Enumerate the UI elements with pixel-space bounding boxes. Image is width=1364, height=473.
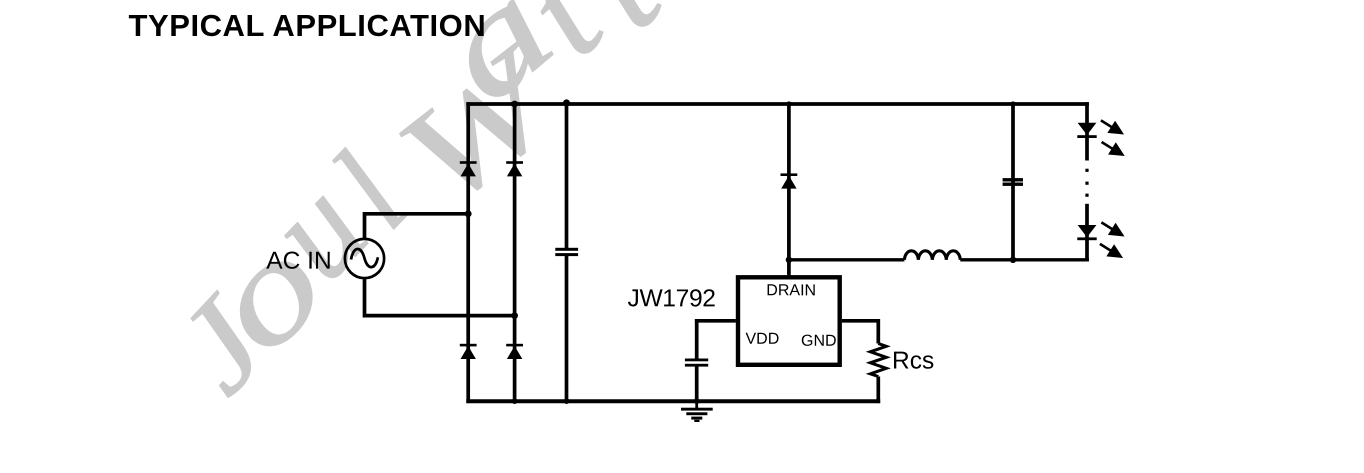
node bottom rail / bridge right: [512, 398, 518, 404]
pin label VDD: [745, 331, 779, 348]
LED1 emission arrow lower: [1102, 142, 1123, 155]
node bottom rail / ground: [694, 398, 700, 404]
wire AC top: [365, 214, 471, 239]
node top rail / input cap: [563, 99, 570, 106]
capacitor C1 input plates: [555, 248, 578, 256]
node bottom rail / input cap: [564, 398, 570, 404]
diode D2 top-right: [506, 161, 523, 176]
wire inductor to LED branch: [960, 258, 1089, 261]
wire LED branch upper: [1085, 102, 1089, 160]
AC source V1: [345, 239, 384, 278]
wire freewheel diode branch: [787, 102, 791, 260]
ground symbol: [681, 401, 713, 422]
node top rail / freewheel diode: [786, 101, 791, 106]
wire VDD cap lower: [695, 366, 699, 403]
wire LED branch lower: [1085, 204, 1089, 262]
wire VDD cap upper: [695, 319, 699, 359]
title: [129, 8, 487, 44]
LED2 emission arrow upper: [1101, 222, 1122, 235]
resistor Rcs: [870, 344, 886, 377]
node AC top junction: [465, 210, 472, 217]
node output cap bottom: [1010, 257, 1016, 263]
inductor L: [904, 251, 960, 260]
wire GND pin: [842, 321, 878, 344]
pin label GND: [801, 333, 837, 350]
svg-text:Rcs: Rcs: [892, 348, 934, 375]
node top rail / bridge right: [511, 101, 518, 108]
LED string LED2: [1077, 225, 1096, 240]
wire bridge right branch: [513, 102, 517, 403]
wire input cap branch lower: [565, 255, 569, 403]
LED string LED1: [1077, 123, 1096, 138]
wire bridge left branch: [466, 102, 470, 403]
wire Rcs bottom: [876, 377, 880, 404]
wire drain to inductor: [787, 258, 904, 261]
wire output cap branch: [1011, 102, 1015, 260]
diode D1 top-left: [460, 161, 477, 176]
capacitor C2 output plates: [1003, 178, 1023, 186]
diode D3 bottom-left: [460, 344, 477, 359]
svg-text:AC IN: AC IN: [266, 248, 331, 275]
LED string dotted section: [1085, 169, 1088, 197]
IC U1 JW1792 body: [738, 277, 840, 365]
node top rail / output cap: [1010, 101, 1015, 106]
capacitor C3 VDD plates: [685, 359, 708, 367]
LED2 emission arrow lower: [1100, 244, 1121, 257]
pin label DRAIN: [766, 282, 816, 299]
svg-text:DRAIN: DRAIN: [766, 282, 816, 299]
svg-text:VDD: VDD: [745, 331, 779, 348]
watermark JoulWatt: [145, 274, 296, 421]
diode D4 bottom-right: [506, 344, 523, 359]
wire drain pin stub: [787, 260, 791, 277]
wire VDD pin: [695, 319, 736, 323]
wire bottom rail: [466, 399, 880, 403]
svg-text:GND: GND: [801, 333, 837, 350]
wire AC bottom: [365, 278, 517, 315]
node drain: [786, 257, 792, 263]
node AC bottom junction: [511, 312, 518, 319]
diode D5 freewheel: [781, 173, 798, 188]
wire input cap branch upper: [565, 102, 569, 248]
wire top rail: [466, 102, 1089, 106]
LED1 emission arrow upper: [1101, 120, 1122, 132]
svg-text:JW1792: JW1792: [627, 285, 715, 312]
